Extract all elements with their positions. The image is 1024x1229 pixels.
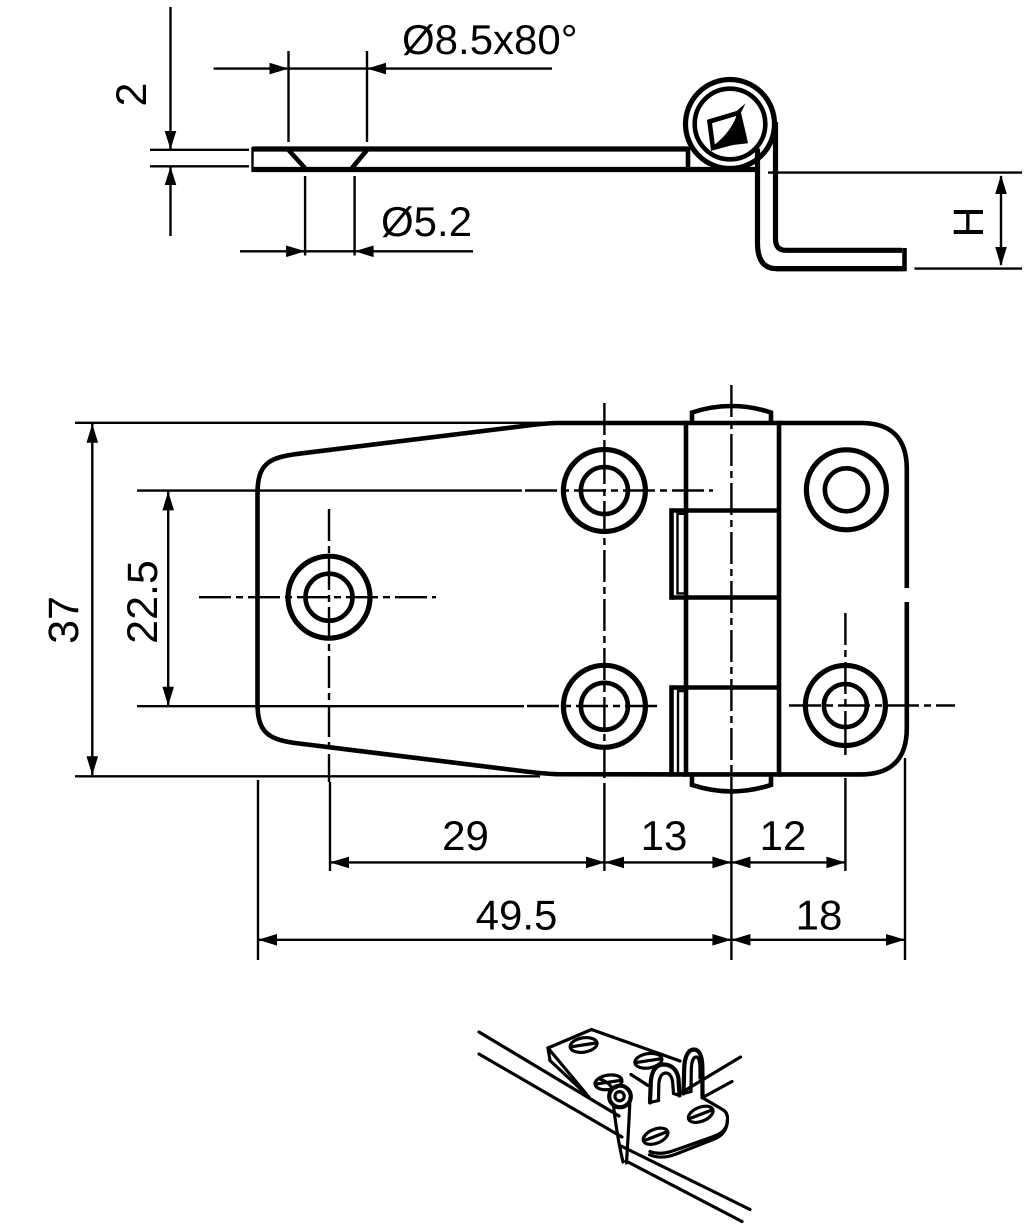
dim 2: extension line upper	[150, 149, 249, 151]
dim 8.5: dimension line	[214, 67, 552, 69]
SIDE VIEW	[108, 7, 1022, 271]
pin top end cap	[692, 406, 771, 424]
dim H: arrow up	[995, 175, 1007, 194]
dim 5.2: arrow left	[355, 246, 374, 258]
plate end tick at knuckle	[686, 147, 691, 172]
dim 5.2: extension line left	[304, 176, 306, 256]
dim 22.5: arrow up	[162, 491, 174, 510]
bent leaf hole 2 slot	[644, 1132, 667, 1141]
middle top hole inner circle	[581, 467, 628, 514]
dim 13: arrow left	[605, 857, 624, 869]
top leaf hole 1 slot	[571, 1043, 596, 1047]
bent leaf hole 1	[686, 1103, 715, 1126]
PLAN VIEW	[199, 385, 955, 798]
bent leaf left edge thickness line	[614, 1106, 624, 1163]
knuckle inner circle	[695, 89, 766, 160]
hinge plate bottom edge (side view)	[252, 167, 761, 172]
pin column right edge	[777, 421, 782, 777]
dim 37: arrow up	[87, 424, 99, 443]
middle top hole horizontal centerline	[525, 489, 713, 491]
extension line from left edge x258	[257, 780, 259, 960]
dim 49.5: dimension line	[258, 939, 731, 941]
dim 2: arrow down	[165, 131, 177, 150]
knuckle arch A outer	[650, 1065, 680, 1103]
extension line from middle holes x604	[603, 788, 605, 871]
dim 2: arrow up	[165, 167, 177, 185]
middle bottom hole inner circle	[581, 683, 628, 730]
extension line from left hole x330	[329, 782, 331, 871]
svg-text:22.5: 22.5	[119, 560, 167, 644]
right bottom hole vertical centerline	[844, 613, 846, 760]
svg-text:Ø8.5x80°: Ø8.5x80°	[402, 16, 578, 63]
top leaf hole 3	[634, 1052, 663, 1070]
dim 37: bottom extension line	[75, 775, 540, 777]
dim H: lower reference line	[915, 267, 1023, 269]
bottom edge across pin column	[683, 772, 782, 777]
pin symbol filled sail	[711, 104, 749, 148]
pin column left edge	[684, 421, 689, 777]
svg-text:2: 2	[108, 83, 156, 107]
panel front lower edge right	[626, 1161, 742, 1222]
dim 22.5: bottom extension line	[137, 705, 524, 707]
dim H: upper reference line	[768, 171, 1022, 173]
top leaf left end cap	[548, 1048, 550, 1061]
left hole horizontal centerline	[199, 596, 436, 598]
dim 2: dimension line below	[169, 167, 171, 236]
dim 29: arrow right	[586, 857, 605, 869]
bottom holes horizontal centerline right part	[789, 704, 955, 706]
dim 5.2: arrow right	[286, 246, 305, 258]
pin curl outer ring	[609, 1086, 631, 1108]
pin curl inner ring	[615, 1092, 624, 1101]
bottom knuckle curl outer edge	[669, 685, 674, 776]
dim 18: dimension line	[731, 939, 905, 941]
right leaf outline	[779, 423, 907, 588]
left hole vertical centerline	[328, 509, 330, 782]
bent leaf inner edge	[776, 122, 903, 250]
panel front bottom edge right	[621, 1146, 750, 1210]
top leaf hole 1	[569, 1036, 598, 1054]
fold line curl to arch	[631, 1075, 648, 1086]
dim 18: arrow right	[886, 934, 905, 946]
svg-text:Ø5.2: Ø5.2	[381, 198, 472, 245]
knuckle arch A left end	[650, 1101, 659, 1103]
right bottom hole outer circle	[805, 666, 885, 746]
dim 8.5: extension line left	[287, 51, 289, 142]
dim 8.5: arrow left	[367, 63, 386, 75]
panel top far edge	[479, 1032, 619, 1116]
top leaf front bottom edge	[550, 1061, 589, 1098]
dim 12: arrow right	[826, 857, 845, 869]
hinge plate top edge (side view)	[253, 146, 688, 151]
left hole inner circle	[306, 574, 353, 621]
extension line from right hole x845	[844, 778, 846, 871]
right top hole outer circle	[806, 450, 886, 530]
bent leaf outer edge (right of knuckle)	[758, 149, 906, 269]
top leaf fold edge into curl	[600, 1079, 612, 1087]
bent leaf left edge	[627, 1098, 631, 1163]
bent leaf end cap	[902, 248, 907, 271]
dim 22.5: dimension line	[167, 492, 169, 706]
dim 12: dimension line	[731, 861, 845, 863]
dim 2: extension line lower	[150, 165, 249, 167]
dim 18: arrow left	[731, 934, 750, 946]
svg-text:37: 37	[40, 596, 88, 644]
dim 49.5: arrow right	[712, 934, 731, 946]
top leaf hole 3 slot	[636, 1059, 661, 1063]
panel top far edge right part	[684, 1057, 741, 1091]
countersink left slash	[289, 150, 306, 168]
knuckle arch B outer	[684, 1050, 703, 1098]
top leaf front edge	[548, 1048, 586, 1094]
dim 12: arrow left	[731, 857, 750, 869]
dim 29: arrow left	[330, 857, 349, 869]
dim 22.5: top extension line	[137, 489, 522, 491]
left leaf outline	[258, 423, 687, 774]
dim 2: dimension line above	[169, 7, 171, 149]
extension line from pin axis x731	[730, 798, 732, 960]
dim 49.5: arrow left	[258, 934, 277, 946]
bottom holes horizontal centerline left part	[527, 705, 660, 707]
svg-text:12: 12	[760, 812, 807, 859]
dim 13: arrow right	[712, 857, 731, 869]
knuckle divider 1	[672, 508, 782, 513]
dim 8.5: extension line right	[366, 51, 368, 142]
middle knuckle curl outer edge	[669, 508, 674, 599]
dim H: arrow down	[995, 247, 1007, 266]
knuckle arch A inner	[659, 1073, 674, 1101]
dim 13: dimension line	[605, 861, 731, 863]
middle knuckle curl inner contour	[678, 514, 688, 594]
middle bottom hole outer circle	[563, 665, 645, 747]
knuckle divider 3	[672, 685, 782, 690]
knuckle arch A right end	[674, 1094, 680, 1096]
top edge across pin column	[683, 421, 782, 426]
knuckle outer circle	[686, 80, 775, 169]
right bottom hole inner circle	[824, 684, 867, 727]
right top hole inner circle	[825, 468, 868, 511]
countersink right slash	[352, 150, 367, 168]
bent leaf hole 1 slot	[689, 1110, 712, 1119]
knuckle arch B left end	[684, 1092, 692, 1094]
svg-text:49.5: 49.5	[476, 892, 558, 939]
panel top near edge right part	[704, 1082, 733, 1098]
pin axis centerline	[730, 385, 732, 798]
middle top hole outer circle	[563, 450, 645, 532]
DIMENSIONS	[40, 423, 905, 960]
svg-text:18: 18	[796, 892, 843, 939]
dim 37: arrow down	[87, 756, 99, 775]
bent leaf top-right edge	[703, 1098, 728, 1124]
pin bottom end cap	[692, 773, 771, 791]
top leaf top-left edge	[548, 1030, 592, 1049]
dim 8.5: arrow right	[270, 63, 289, 75]
top leaf hole 2 slot	[596, 1080, 621, 1084]
panel top near edge	[479, 1054, 622, 1137]
dim H: dimension line	[1000, 176, 1002, 265]
plate left end cap	[251, 147, 253, 172]
knuckle divider 2	[672, 595, 782, 600]
svg-text:29: 29	[442, 812, 489, 859]
bottom knuckle curl inner contour	[678, 691, 687, 773]
dim 5.2: dimension line	[240, 250, 473, 252]
bent leaf thickness edge	[650, 1122, 728, 1158]
dim 37: dimension line	[91, 424, 93, 775]
svg-text:13: 13	[641, 812, 688, 859]
top leaf hole 2	[594, 1073, 623, 1091]
knuckle arch B inner	[691, 1057, 700, 1092]
dim 22.5: arrow down	[162, 687, 174, 706]
dim 37: top extension line	[75, 422, 548, 424]
extension line from right edge x905	[904, 758, 906, 960]
middle holes vertical centerline	[603, 403, 605, 788]
ISOMETRIC	[479, 1030, 750, 1222]
bent leaf hole 2	[641, 1125, 670, 1148]
left hole outer circle	[288, 556, 370, 638]
top leaf top-right edge	[592, 1030, 681, 1062]
pin symbol square outline	[710, 113, 743, 148]
bent leaf bottom edge	[650, 1124, 727, 1153]
dim 29: dimension line	[330, 861, 605, 863]
dim 5.2: extension line right	[353, 176, 355, 256]
svg-text:H: H	[945, 206, 993, 237]
